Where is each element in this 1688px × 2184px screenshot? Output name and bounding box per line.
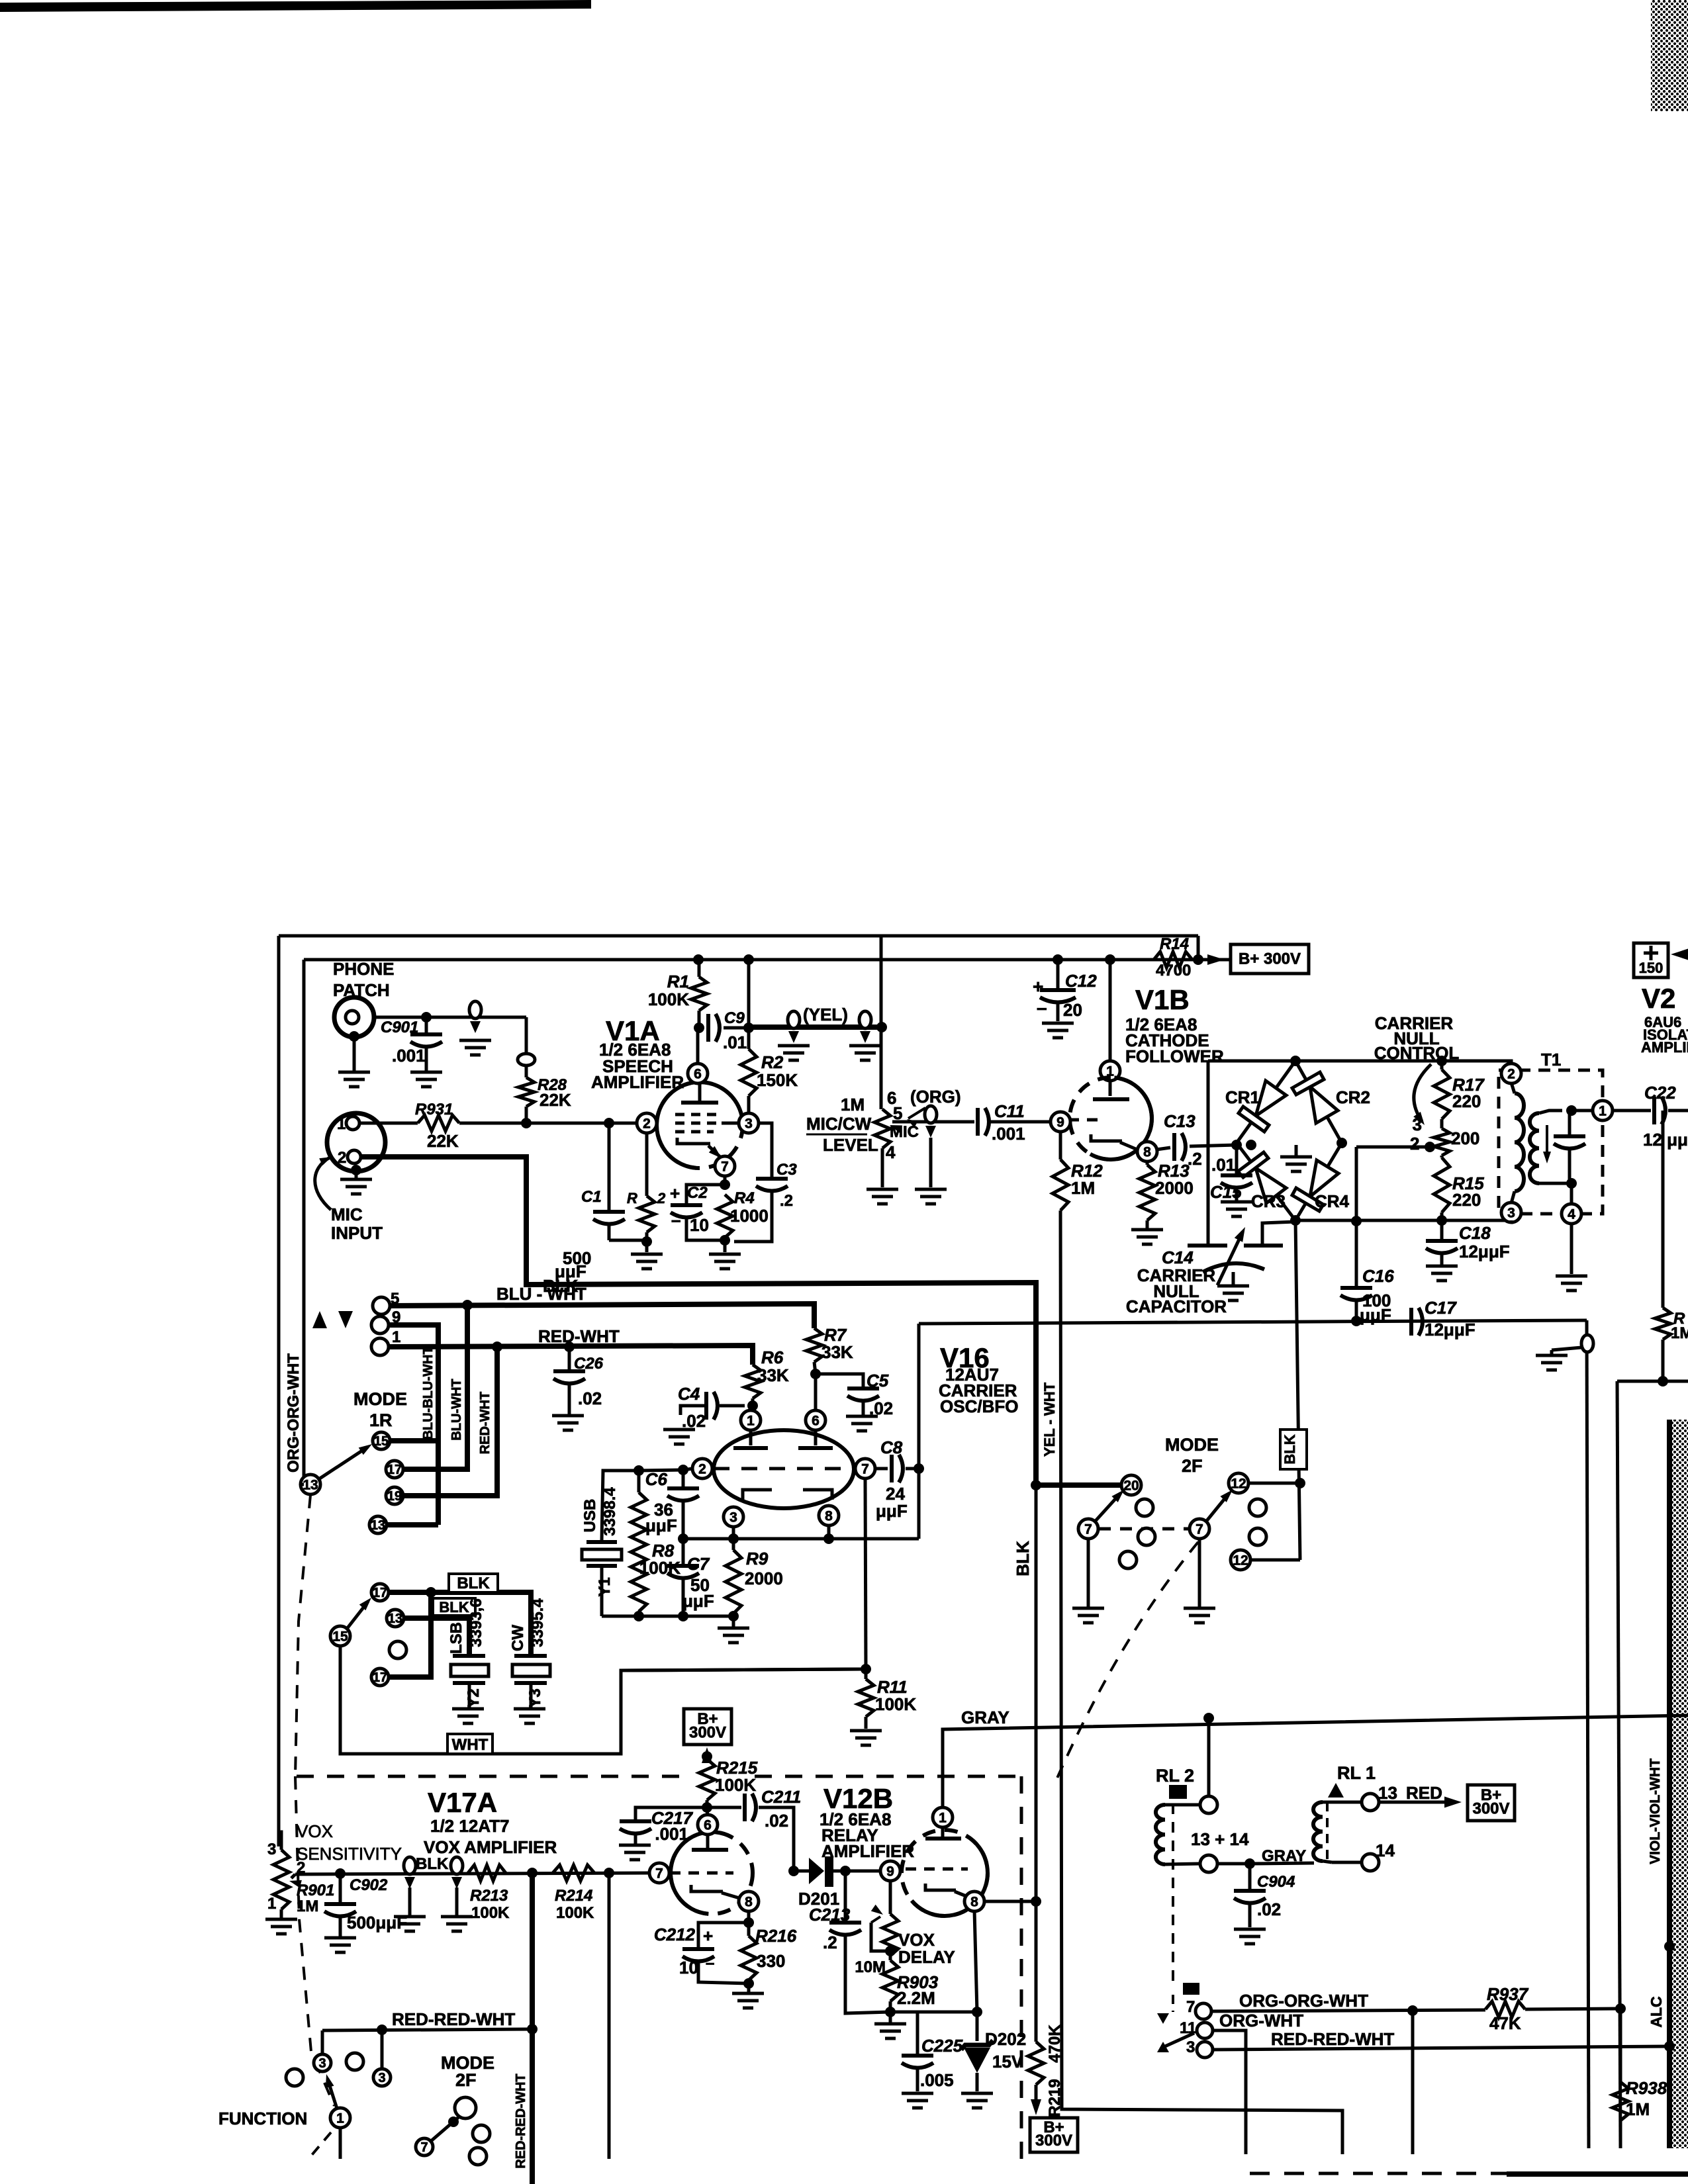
B+ 300V box RL1	[1468, 1785, 1515, 1821]
ground C904	[1234, 1928, 1266, 1931]
switch mode 2F pin 12 bottom	[1231, 1550, 1250, 1570]
svg-text:1: 1	[267, 1895, 276, 1913]
ground C15	[1221, 1201, 1252, 1204]
switch mode 1R contact 17	[386, 1461, 403, 1478]
svg-text:9: 9	[1056, 1115, 1064, 1130]
pot wiper arm arrow	[1414, 1064, 1431, 1121]
svg-text:AMPLIFIER: AMPLIFIER	[1641, 1039, 1688, 1056]
V12B pin 9	[880, 1861, 900, 1881]
capacitor C902 500uuF	[339, 1874, 342, 1902]
capacitor C225 .005	[916, 2012, 919, 2054]
svg-text:GRAY: GRAY	[961, 1707, 1009, 1727]
V17A pin 7	[649, 1863, 669, 1883]
svg-text:17: 17	[373, 1670, 387, 1685]
ground of feedthrough	[1536, 1354, 1568, 1357]
ground C5	[846, 1415, 878, 1418]
svg-text:.001: .001	[392, 1046, 426, 1066]
ground C26	[552, 1414, 584, 1418]
svg-text:CAPACITOR: CAPACITOR	[1126, 1297, 1227, 1316]
svg-text:R938: R938	[1626, 2078, 1667, 2098]
phone patch jack J	[334, 997, 374, 1037]
V1A pin 7	[715, 1156, 735, 1176]
svg-text:RL 1: RL 1	[1337, 1763, 1376, 1783]
svg-text:C904: C904	[1257, 1873, 1295, 1891]
svg-text:BLK: BLK	[1282, 1434, 1298, 1464]
svg-text:RED-RED-WHT: RED-RED-WHT	[392, 2009, 515, 2029]
V16 grid dashes	[714, 1467, 854, 1471]
svg-text:100K: 100K	[715, 1775, 756, 1795]
svg-text:470K: 470K	[1046, 2025, 1064, 2063]
svg-text:33K: 33K	[757, 1365, 789, 1385]
B+ 300V box V17A	[684, 1709, 731, 1745]
svg-text:BLU-BLU-WHT: BLU-BLU-WHT	[421, 1346, 436, 1439]
bottom page edge line solid part	[1507, 2171, 1688, 2177]
node bridge right	[1336, 1138, 1347, 1148]
node T1 secondary bottom	[1566, 1178, 1577, 1189]
node C211/D201	[788, 1866, 799, 1876]
relay RL1 coil	[1313, 1802, 1323, 1861]
svg-text:C7: C7	[687, 1554, 710, 1574]
resistor R215 100K	[702, 1751, 712, 1762]
svg-text:RED-WHT: RED-WHT	[478, 1392, 492, 1454]
V1A plate	[681, 1101, 718, 1105]
svg-text:8: 8	[1143, 1145, 1151, 1160]
switch mode 2R contact 13	[387, 1610, 404, 1627]
T1 secondary coil	[1530, 1113, 1539, 1183]
wire BLU-WHT vertical to contact 17	[404, 1305, 467, 1469]
rotor arm with arrow	[328, 2079, 337, 2109]
svg-text:.01: .01	[723, 1032, 747, 1052]
connector feedthrough near phone patch	[469, 1001, 481, 1019]
wire YEL-WHT vertical	[1060, 1210, 1342, 2154]
resistor R8 100K	[637, 1471, 641, 1492]
ground R901	[265, 1918, 297, 1921]
V1B cathode	[1091, 1134, 1122, 1141]
V1A pin 2	[637, 1113, 657, 1133]
junction outer loop / B+ rail	[1193, 954, 1203, 965]
resistor R214 100K	[553, 1865, 594, 1881]
open contacts	[473, 2125, 490, 2142]
svg-text:C3: C3	[776, 1161, 797, 1179]
rotor arm right	[1206, 1493, 1229, 1522]
function switch contact 3a	[314, 2054, 331, 2071]
svg-text:(ORG): (ORG)	[910, 1087, 961, 1107]
svg-text:13: 13	[388, 1612, 402, 1626]
svg-text:3393,6: 3393,6	[467, 1598, 485, 1647]
crystal Y1 USB 3398.4	[586, 1540, 617, 1544]
T1 pin 1	[1593, 1101, 1613, 1120]
ground rotor7 left	[1087, 1538, 1090, 1607]
resistor R12 1M + YEL-WHT long line	[1059, 1132, 1062, 1160]
capacitor C1 500uuF	[608, 1123, 611, 1210]
svg-text:3: 3	[1413, 1115, 1422, 1134]
V16 pin 2	[692, 1459, 712, 1479]
ground C12	[1042, 1022, 1074, 1025]
svg-text:C22: C22	[1644, 1083, 1676, 1103]
rotor mode 2R pin 15	[330, 1626, 350, 1646]
svg-text:9: 9	[886, 1864, 894, 1880]
T1 pin 3	[1501, 1203, 1521, 1222]
switch mode 1R contact 15	[373, 1432, 390, 1449]
svg-text:3: 3	[1507, 1206, 1515, 1221]
svg-text:.01: .01	[1211, 1155, 1235, 1175]
svg-text:8: 8	[745, 1895, 753, 1910]
svg-text:R219: R219	[1046, 2079, 1064, 2116]
switch mode 2F rotor 7 right	[1190, 1519, 1209, 1539]
capacitor C2 10uF	[686, 1185, 725, 1203]
svg-text:17: 17	[373, 1586, 387, 1600]
svg-text:+: +	[703, 1926, 713, 1946]
tube V12B envelope	[902, 1830, 988, 1916]
wire cathode bus	[683, 1537, 919, 1541]
svg-text:2: 2	[1507, 1067, 1515, 1082]
switch mode 1R contact 5	[373, 1297, 390, 1314]
dashed core RL2	[1172, 1803, 1174, 1983]
capacitor C217 .001	[635, 1807, 707, 1819]
dashed mechanical link left	[295, 1495, 310, 1776]
svg-text:RED: RED	[1406, 1783, 1442, 1803]
svg-text:FUNCTION: FUNCTION	[218, 2109, 307, 2128]
T1 slug arrow	[1546, 1125, 1548, 1158]
wire vertical from carrier line to C8 node	[917, 1324, 921, 1539]
svg-text:.2: .2	[823, 1933, 837, 1952]
armature triangle RL1	[1328, 1783, 1344, 1797]
switch mode 1R contact 19	[386, 1487, 403, 1504]
wire horizontal y2087 to page edge	[1617, 1380, 1688, 1383]
wire contact9 BLU-BLU-WHT vertical	[389, 1325, 438, 1525]
resistor R2 150K	[747, 1028, 751, 1049]
capacitor C7 50uuF	[682, 1539, 685, 1564]
svg-text:ORG-ORG-WHT: ORG-ORG-WHT	[285, 1353, 303, 1473]
switch contact 3	[1197, 2042, 1213, 2058]
svg-text:14: 14	[1376, 1841, 1395, 1860]
wire down to R28	[525, 1017, 528, 1054]
ground C902	[324, 1936, 356, 1940]
tube V17A envelope	[671, 1832, 753, 1914]
wire 13 to LSB crystal	[404, 1618, 469, 1655]
svg-text:C2: C2	[687, 1184, 708, 1202]
svg-text:V1B: V1B	[1135, 984, 1190, 1015]
svg-text:MIC: MIC	[331, 1205, 363, 1224]
svg-text:μμF: μμF	[876, 1501, 908, 1521]
potentiometer R901 1M	[279, 1832, 281, 1850]
capacitor C901 .001	[425, 1017, 428, 1033]
wire GRAY to RL2 coil	[1203, 1713, 1214, 1723]
rotor arm mode 2R	[347, 1602, 368, 1629]
svg-text:7: 7	[655, 1866, 663, 1882]
svg-text:4700: 4700	[1156, 962, 1191, 979]
ground V16 bus	[718, 1627, 749, 1630]
node bridge bottom	[1290, 1215, 1301, 1226]
svg-text:C11: C11	[994, 1101, 1025, 1121]
connector oval on R28 lead	[518, 1054, 535, 1066]
B+ 300V box bottom	[1030, 2118, 1078, 2152]
svg-text:7: 7	[1186, 1998, 1195, 2016]
V16 pin 1	[751, 1406, 753, 1411]
capacitor C4 .02	[720, 1404, 745, 1408]
svg-text:.02: .02	[765, 1811, 788, 1831]
svg-text:19: 19	[387, 1489, 402, 1504]
switch mode 1R contact 1	[371, 1338, 389, 1355]
svg-text:C6: C6	[645, 1469, 668, 1489]
switch mode 1R contact 9	[371, 1316, 389, 1334]
wire to T1 pin 1	[1571, 1109, 1593, 1113]
switch mode 2F pin 12 top	[1229, 1473, 1248, 1493]
svg-text:CR2: CR2	[1336, 1087, 1370, 1107]
svg-text:CR4: CR4	[1315, 1191, 1350, 1211]
svg-text:(YEL): (YEL)	[803, 1005, 848, 1024]
switch mode 2F pin 20	[1121, 1475, 1141, 1495]
wire coil bottom to terminal 14	[1323, 1861, 1332, 1862]
svg-text:12: 12	[1233, 1553, 1248, 1569]
svg-text:VOX AMPLIFIER: VOX AMPLIFIER	[424, 1837, 557, 1857]
wire to contact 3b	[381, 2030, 384, 2069]
resistor R11 100K	[858, 1679, 874, 1717]
svg-text:2000: 2000	[745, 1569, 783, 1588]
wire wiper to bridge bottom + C16 vertical	[1355, 1147, 1358, 1286]
wire outer loop right vertical to B+ rail	[1197, 936, 1200, 960]
wire bridge bottom rail	[1295, 1219, 1511, 1222]
svg-text:300V: 300V	[1035, 2132, 1072, 2150]
wire to crystal Y1	[602, 1471, 639, 1540]
resistor R3	[645, 1132, 649, 1196]
svg-text:DELAY: DELAY	[898, 1947, 955, 1967]
capacitor C211 .02	[707, 1806, 741, 1809]
ground R3/C1	[631, 1253, 663, 1256]
svg-text:3: 3	[1186, 2038, 1195, 2056]
svg-text:7: 7	[1196, 1522, 1203, 1537]
svg-text:330: 330	[757, 1951, 785, 1971]
svg-text:Y2: Y2	[465, 1688, 483, 1707]
diode CR2	[1310, 1087, 1338, 1123]
svg-text:15: 15	[332, 1629, 348, 1645]
ground inside bridge	[1295, 1145, 1298, 1156]
svg-text:150K: 150K	[757, 1070, 798, 1090]
svg-text:CR3: CR3	[1251, 1191, 1286, 1211]
wire BLK vertical continues to R219	[1035, 1485, 1038, 2042]
svg-text:2: 2	[643, 1116, 651, 1132]
relay RL2 coil	[1200, 1796, 1217, 1813]
svg-text:C12: C12	[1065, 971, 1097, 991]
wire RL2 to C904 node	[1217, 1862, 1250, 1866]
svg-text:R1: R1	[667, 972, 689, 991]
svg-text:1: 1	[337, 1115, 346, 1133]
resistor R213 100K	[468, 1865, 506, 1881]
svg-text:20: 20	[1063, 1000, 1082, 1020]
svg-text:–: –	[706, 1954, 714, 1972]
svg-text:V2: V2	[1642, 983, 1675, 1014]
V1A cathode	[677, 1138, 710, 1144]
svg-text:BLK: BLK	[439, 1599, 469, 1615]
svg-text:1: 1	[1599, 1104, 1607, 1119]
tube V16 envelope	[714, 1430, 854, 1508]
rotor arm left	[1095, 1493, 1121, 1522]
svg-text:12 μμF: 12 μμF	[1643, 1130, 1688, 1150]
V1A grid dashes	[675, 1113, 718, 1116]
wire MIC-CW pot feed vertical	[880, 936, 883, 1109]
mic input jack	[327, 1113, 385, 1171]
svg-text:VIOL-VIOL-WHT: VIOL-VIOL-WHT	[1648, 1758, 1663, 1864]
T1 pin 4	[1562, 1204, 1581, 1224]
diode D201	[794, 1870, 809, 1873]
wire RED-WHT vertical to contact 19	[404, 1347, 497, 1496]
svg-text:1M: 1M	[1626, 2099, 1650, 2119]
resistor R1 100K	[691, 977, 707, 1011]
svg-text:USB: USB	[581, 1499, 599, 1533]
resistor R7 33K	[806, 1328, 822, 1362]
V17A pin 8	[739, 1891, 759, 1911]
wire bridge left vertical to C14	[1207, 1061, 1210, 1246]
svg-text:V17A: V17A	[428, 1787, 497, 1818]
svg-text:BLK: BLK	[457, 1574, 490, 1592]
svg-text:3: 3	[318, 2056, 326, 2071]
ground pot	[881, 1148, 884, 1187]
capacitor C6 36uuF	[682, 1470, 685, 1486]
svg-text:C16: C16	[1362, 1266, 1394, 1286]
svg-text:17: 17	[387, 1463, 402, 1477]
diode CR3	[1256, 1168, 1286, 1203]
wire BLK vertical bridge-bottom to mode 2F	[1295, 1220, 1300, 1560]
armature square RL2	[1169, 1785, 1187, 1799]
potentiometer carrier null R17/200/R15	[1436, 1056, 1447, 1066]
ground MIC connector	[929, 1138, 933, 1187]
node R6/C4/pin1	[747, 1400, 758, 1411]
svg-text:7: 7	[420, 2140, 428, 2155]
wire long horizontal carrier line y1997	[919, 1320, 1587, 1324]
svg-text:200: 200	[1451, 1128, 1479, 1148]
V12B pin 1	[933, 1807, 953, 1827]
V1A pin 3	[739, 1113, 759, 1133]
label box WHT	[447, 1734, 492, 1754]
svg-text:100K: 100K	[556, 1904, 594, 1922]
capacitor C12 20	[1053, 954, 1063, 965]
capacitor C212 10	[743, 1917, 754, 1928]
svg-text:R216: R216	[755, 1926, 797, 1946]
wire outer loop left vertical (to VOX pot)	[277, 936, 281, 1846]
connector feedthrough YEL 1	[788, 1011, 800, 1028]
ground R11	[850, 1729, 882, 1733]
svg-text:12: 12	[1231, 1477, 1246, 1492]
stipple band right edge	[1668, 1420, 1688, 2148]
V17A cathode	[691, 1885, 723, 1891]
svg-text:C8: C8	[880, 1437, 903, 1457]
function rotor 1	[330, 2108, 350, 2128]
svg-text:AMPLIFIER: AMPLIFIER	[591, 1072, 684, 1092]
svg-text:4: 4	[886, 1142, 896, 1162]
resistor R14	[1154, 952, 1192, 968]
svg-text:VOX: VOX	[297, 1821, 333, 1841]
rotor triangles	[1157, 2013, 1169, 2024]
svg-text:20: 20	[1123, 1479, 1139, 1494]
svg-text:C902: C902	[350, 1876, 388, 1894]
svg-text:C9: C9	[724, 1009, 745, 1027]
wire wiper to MIC connector	[892, 1120, 974, 1124]
svg-text:CR1: CR1	[1225, 1087, 1260, 1107]
wire inner loop left vertical ORG-ORG-WHT	[303, 960, 306, 1484]
connector feedthrough on vertical A	[1581, 1335, 1593, 1352]
transformer T1 box	[1499, 1070, 1603, 1214]
V1B pin 1	[1100, 1061, 1120, 1081]
svg-text:6: 6	[694, 1067, 702, 1082]
switch contact 7	[1196, 2003, 1211, 2019]
svg-text:R213: R213	[470, 1887, 508, 1905]
mic jack pin 1	[346, 1116, 359, 1130]
svg-text:100K: 100K	[471, 1904, 510, 1922]
V16 pin 8	[819, 1506, 839, 1525]
tube V1A envelope	[657, 1082, 743, 1168]
svg-text:150: 150	[1639, 960, 1664, 976]
svg-text:.001: .001	[992, 1124, 1025, 1144]
svg-text:C26: C26	[574, 1355, 604, 1373]
svg-text:B+ 300V: B+ 300V	[1239, 950, 1301, 968]
switch mode 2R open contact	[389, 1641, 406, 1659]
capacitor C213 .2	[844, 1871, 847, 1921]
resistor R4 1000	[717, 1195, 733, 1238]
svg-text:8: 8	[970, 1895, 978, 1910]
svg-text:C13: C13	[1164, 1111, 1196, 1131]
crystal Y2 LSB	[453, 1654, 485, 1658]
rotor arm mode 1R	[318, 1447, 368, 1480]
resistor R903 2.2M	[889, 1956, 892, 1960]
rotor shaft line	[339, 2127, 342, 2159]
svg-text:2: 2	[1410, 1134, 1419, 1154]
ground	[441, 1915, 473, 1919]
svg-text:R901: R901	[297, 1882, 334, 1899]
V12B pin 8	[964, 1891, 984, 1911]
svg-text:MODE: MODE	[1165, 1435, 1219, 1455]
svg-text:22K: 22K	[427, 1131, 459, 1151]
svg-text:INPUT: INPUT	[331, 1223, 383, 1243]
svg-text:C17: C17	[1425, 1298, 1457, 1318]
wire cathode bottom rail	[890, 2011, 977, 2014]
svg-text:MODE: MODE	[353, 1389, 407, 1409]
V12B cathode	[925, 1884, 956, 1890]
svg-text:MIC/CW: MIC/CW	[806, 1114, 872, 1134]
wire RED-WHT contact1 to R6	[389, 1345, 753, 1365]
svg-text:Y3: Y3	[526, 1688, 544, 1707]
svg-text:.02: .02	[578, 1388, 602, 1408]
svg-text:RED-RED-WHT: RED-RED-WHT	[1271, 2029, 1394, 2049]
ground R216	[747, 1983, 751, 1992]
svg-text:1M: 1M	[1671, 1324, 1688, 1342]
diode bridge diamond	[1237, 1061, 1295, 1143]
wire VIOL-VIOL-WHT vertical at stipple edge	[1667, 1420, 1672, 2148]
label box BLK mode 2F	[1280, 1430, 1307, 1469]
diode CR1	[1256, 1081, 1286, 1116]
svg-text:1/2 12AT7: 1/2 12AT7	[430, 1816, 509, 1836]
variable capacitor C14 carrier null	[1188, 1244, 1227, 1248]
svg-text:SENSITIVITY: SENSITIVITY	[297, 1844, 402, 1864]
connector MIC feedthrough	[925, 1106, 937, 1123]
dashed link RL2 to switch	[1172, 1995, 1174, 2012]
svg-text:.001: .001	[655, 1824, 688, 1844]
arrow into +150 box	[1671, 949, 1688, 960]
svg-text:C212: C212	[654, 1925, 696, 1944]
svg-text:13: 13	[371, 1518, 385, 1533]
resistor R (1M) right edge	[1662, 1111, 1665, 1308]
wire R11 node to WHT loop	[621, 1669, 866, 1670]
svg-text:C901: C901	[381, 1019, 418, 1036]
V16 plates	[749, 1430, 753, 1445]
svg-text:C4: C4	[678, 1384, 700, 1404]
svg-text:12μμF: 12μμF	[1459, 1242, 1510, 1261]
label box BLK 2	[433, 1598, 475, 1615]
wire to RL1 coil bottom	[1250, 1863, 1314, 1864]
svg-text:.2: .2	[780, 1192, 793, 1210]
V12B plate	[925, 1837, 961, 1841]
resistor R9 2000	[732, 1539, 735, 1550]
svg-text:RED-RED-WHT: RED-RED-WHT	[514, 2073, 528, 2168]
